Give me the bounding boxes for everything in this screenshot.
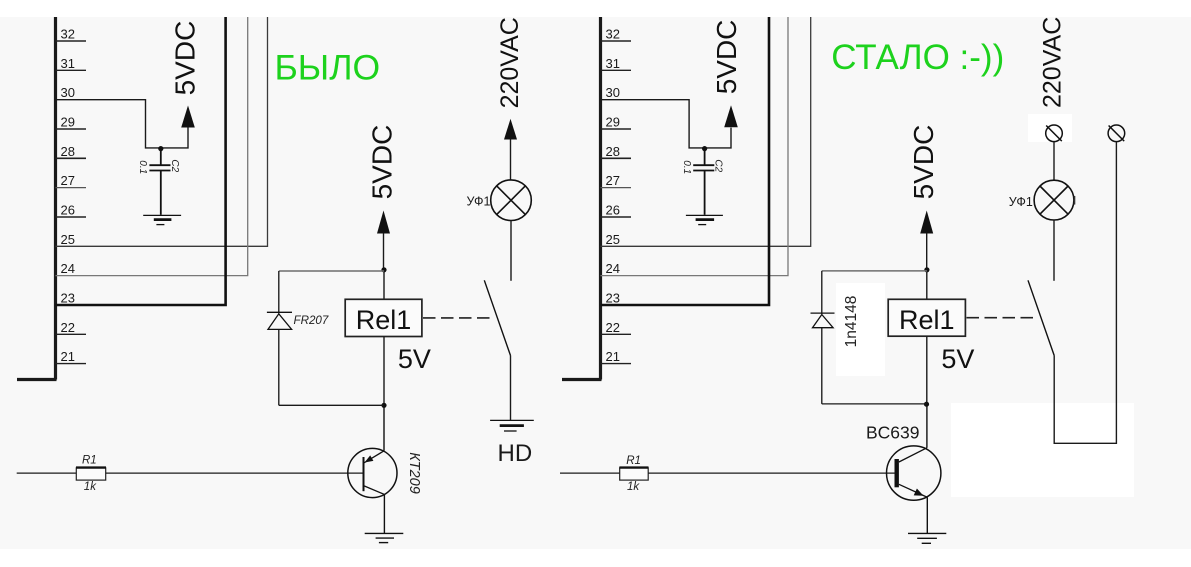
resistor R1 (right) <box>560 472 620 474</box>
connector J1 pin 29 <box>56 115 87 130</box>
svg-text:БЫЛО: БЫЛО <box>275 48 381 88</box>
lamp УФ1 (left) <box>491 180 532 221</box>
connector J2 pin 22 <box>601 320 632 335</box>
wire node to Rel1 <box>383 270 385 300</box>
svg-text:HD: HD <box>498 440 533 467</box>
wire pin24 riser (right) <box>601 17 789 276</box>
node B (Rel1 top) <box>381 267 386 272</box>
node C (Rel1 bottom) <box>381 403 386 408</box>
connector J2 pin 24 <box>606 261 620 276</box>
connector J1 pin 31 <box>56 56 87 71</box>
connector J1 pin 22 <box>56 320 87 335</box>
wire pin30 to C2 node and 5VDC arrow <box>56 100 189 148</box>
wire node to Rel1 <box>926 270 928 300</box>
wire pin25 riser <box>56 17 268 246</box>
svg-text:23: 23 <box>606 291 620 306</box>
connector J1 pin 23 <box>61 291 75 306</box>
svg-text:Rel1: Rel1 <box>899 305 955 335</box>
svg-text:29: 29 <box>61 115 75 130</box>
wire Rel1 to node C2r <box>926 336 928 404</box>
diode FR207 loop top wire <box>279 270 384 272</box>
lamp УФ1 (right) <box>1034 180 1074 220</box>
wire terminal X1 to lamp <box>1053 142 1055 181</box>
svg-text:КТ209: КТ209 <box>406 452 422 494</box>
terminal X1 <box>1046 125 1063 142</box>
svg-text:24: 24 <box>606 261 620 276</box>
node A (C2 top) <box>158 146 163 151</box>
ground HD <box>490 420 534 431</box>
power 220VAC arrow <box>504 119 517 140</box>
connector J2 pin 30 <box>606 85 620 100</box>
wire pin23 riser (right, thick) <box>601 17 770 305</box>
wire lamp to switch (right) <box>1053 220 1055 281</box>
wire arrow to node <box>383 233 385 270</box>
power 5VDC arrow (right middle) <box>920 211 933 234</box>
svg-text:СТАЛО :-)): СТАЛО :-)) <box>831 38 1004 77</box>
svg-text:24: 24 <box>61 261 75 276</box>
connector J2 pin 31 <box>601 56 632 71</box>
svg-text:31: 31 <box>61 56 75 71</box>
connector J1 pin 30 <box>61 85 75 100</box>
node C2r (Rel1 bottom) <box>924 402 929 407</box>
svg-text:УФ1: УФ1 <box>1009 195 1033 209</box>
diode FR207 loop bottom wire <box>279 404 384 406</box>
connector J1 body <box>17 17 57 380</box>
svg-text:1n4148: 1n4148 <box>843 296 860 348</box>
emitter arrow (PNP, points to base) <box>365 455 374 462</box>
transistor Q1 KT209 <box>348 405 397 533</box>
connector J1 pin 27 <box>56 173 87 188</box>
svg-text:5V: 5V <box>941 344 974 374</box>
svg-text:28: 28 <box>606 144 620 159</box>
connector J1 pin 25 <box>61 232 75 247</box>
svg-text:5V: 5V <box>398 344 431 374</box>
diode D2 1n4148 <box>811 271 835 404</box>
svg-text:0.1: 0.1 <box>681 160 692 174</box>
svg-text:22: 22 <box>61 320 75 335</box>
wire arrow to node <box>926 233 928 270</box>
connector J2 pin 23 <box>606 291 620 306</box>
connector J1 pin 32 <box>56 27 87 42</box>
diode 1n4148 loop bottom wire <box>822 403 927 405</box>
connector J2 pin 27 <box>601 173 632 188</box>
capacitor C2 (left) <box>149 149 170 215</box>
svg-text:220VAC: 220VAC <box>1039 17 1067 108</box>
wire switch to ground <box>510 356 512 421</box>
svg-text:0.1: 0.1 <box>137 160 148 174</box>
svg-text:23: 23 <box>61 291 75 306</box>
svg-text:C2: C2 <box>713 159 724 172</box>
svg-text:5VDC: 5VDC <box>367 125 398 200</box>
connector J2 pin 32 <box>601 27 632 42</box>
node B2 (Rel1 top) <box>924 267 929 272</box>
terminal X2 <box>1108 125 1125 142</box>
svg-text:BC639: BC639 <box>866 422 920 442</box>
diode FR207 <box>267 271 292 405</box>
svg-text:21: 21 <box>606 349 620 364</box>
wire lamp to switch <box>510 221 512 281</box>
svg-text:26: 26 <box>606 203 620 218</box>
svg-text:5VDC: 5VDC <box>170 21 201 96</box>
svg-text:26: 26 <box>61 203 75 218</box>
connector J1 pin 26 <box>56 203 87 218</box>
svg-text:FR207: FR207 <box>294 314 329 327</box>
dashed link Rel1 to switch (right) <box>967 317 1037 319</box>
capacitor C2 (right) <box>693 149 714 215</box>
switch blade (right) <box>1028 280 1054 355</box>
svg-text:5VDC: 5VDC <box>711 20 742 95</box>
connector J2 pin 21 <box>601 349 632 364</box>
connector J2 pin 26 <box>601 203 632 218</box>
wire pin23 riser (thick) <box>56 17 226 305</box>
white patch right-bottom <box>951 403 1134 497</box>
svg-text:5VDC: 5VDC <box>908 125 939 200</box>
node A2 (C2 top) <box>702 146 707 151</box>
svg-text:25: 25 <box>606 232 620 247</box>
svg-text:1k: 1k <box>627 481 640 493</box>
connector J2 pin 28 <box>601 144 632 159</box>
svg-text:R1: R1 <box>626 455 641 467</box>
svg-text:Rel1: Rel1 <box>356 305 412 335</box>
wire pin25 riser (right) <box>601 17 811 246</box>
svg-text:27: 27 <box>61 173 75 188</box>
white patch behind 1n4148 <box>836 283 885 376</box>
power 5VDC arrow (left connector) <box>181 106 195 128</box>
svg-text:29: 29 <box>606 115 620 130</box>
switch blade (left) <box>484 280 510 355</box>
wire switch down-right-up to terminal X2 <box>1054 142 1116 444</box>
svg-text:220VAC: 220VAC <box>496 17 524 108</box>
svg-text:C2: C2 <box>169 159 180 172</box>
ground (right C2) <box>686 215 723 224</box>
connector J2 body <box>562 17 602 380</box>
wire pin30 to C2 node and 5VDC arrow (right) <box>601 100 732 148</box>
connector J1 pin 28 <box>56 144 87 159</box>
emitter arrow (NPN, points out) <box>914 489 924 496</box>
connector J2 pin 29 <box>601 115 632 130</box>
power 5VDC arrow (left middle) <box>377 211 390 234</box>
ground (Q2 emitter) <box>908 533 946 543</box>
transistor Q2 BC639 <box>887 404 941 533</box>
svg-text:32: 32 <box>61 27 75 42</box>
svg-text:32: 32 <box>606 27 620 42</box>
ground (Q1 emitter) <box>365 533 404 542</box>
connector J1 pin 21 <box>56 349 87 364</box>
stray tick right of lamp <box>1074 196 1076 205</box>
connector J2 pin 25 <box>606 232 620 247</box>
white patch behind terminal X1 <box>1028 114 1072 142</box>
svg-text:УФ1: УФ1 <box>467 195 491 209</box>
power 5VDC arrow (right connector) <box>724 105 738 127</box>
wire Rel1 to node C <box>383 337 385 406</box>
diode 1n4148 loop top wire <box>822 270 927 272</box>
wire pin24 riser <box>56 17 248 276</box>
svg-text:30: 30 <box>606 85 620 100</box>
svg-text:R1: R1 <box>82 454 97 466</box>
ground (left C2) <box>143 215 181 224</box>
svg-text:28: 28 <box>61 144 75 159</box>
svg-text:21: 21 <box>61 349 75 364</box>
resistor R1 (left) <box>17 472 77 474</box>
dashed link Rel1 to switch (left) <box>423 317 493 319</box>
connector J1 pin 24 <box>61 261 75 276</box>
svg-text:25: 25 <box>61 232 75 247</box>
svg-text:30: 30 <box>61 85 75 100</box>
svg-text:31: 31 <box>606 56 620 71</box>
svg-text:27: 27 <box>606 173 620 188</box>
relay Rel1 (left) <box>345 299 422 336</box>
svg-text:1k: 1k <box>84 481 97 493</box>
relay Rel1 (right) <box>888 299 965 336</box>
svg-text:22: 22 <box>606 320 620 335</box>
